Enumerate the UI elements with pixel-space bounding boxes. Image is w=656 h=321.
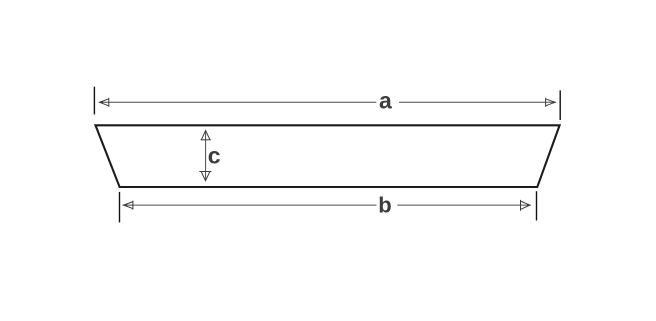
dimension c: bottom open arrowhead <box>199 172 211 181</box>
dimension b: right extension tick <box>536 191 538 220</box>
svg-text:b: b <box>378 192 391 217</box>
dimension a: left extension tick <box>93 87 95 115</box>
trapezoid profile outline <box>96 125 560 187</box>
dimension b: left extension tick <box>119 192 121 223</box>
dimension c: top open arrowhead <box>201 131 211 140</box>
dimension a: right extension tick <box>559 90 561 120</box>
svg-text:a: a <box>379 88 392 114</box>
dimension a: right line segment <box>399 101 556 103</box>
dimension a: left open arrowhead <box>100 98 109 107</box>
dimension a: right open arrowhead <box>546 98 555 107</box>
svg-text:c: c <box>208 142 221 168</box>
dimension b: left line segment <box>123 204 377 206</box>
dimension a: left line segment <box>99 101 376 103</box>
dimension b: right line segment <box>397 204 530 206</box>
dimension b: left open arrowhead <box>124 201 133 210</box>
dimension c: vertical line <box>205 131 207 181</box>
dimension b: right open arrowhead <box>521 200 530 211</box>
